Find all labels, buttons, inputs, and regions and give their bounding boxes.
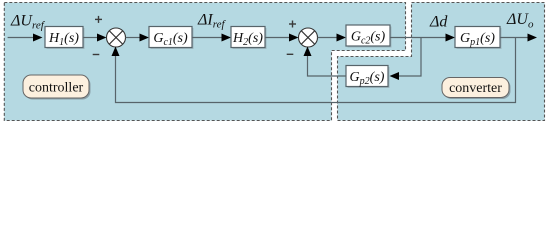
wire: Gp1 to output <box>500 37 529 39</box>
wire: junction 1 to Gc1 <box>126 37 141 39</box>
plus sign junction 2 <box>289 21 296 28</box>
block Gc2 <box>348 27 392 48</box>
summing junction U1 <box>107 28 126 47</box>
wire: Gp2 output back to junction 2 <box>308 56 347 76</box>
wire: junction 2 to Gc2 <box>318 37 338 39</box>
block Gp2 <box>348 67 390 88</box>
minus sign junction 1 <box>93 54 100 56</box>
svg-text:H1(s): H1(s) <box>48 31 79 48</box>
wire: Δd node drop to Gp2 input <box>399 38 421 77</box>
svg-text:controller: controller <box>29 81 84 96</box>
svg-text:H2(s): H2(s) <box>232 31 263 48</box>
summing junction U2 <box>299 28 318 47</box>
controller region (blue, dashed border) <box>4 3 405 121</box>
controller label <box>25 77 91 100</box>
svg-text:converter: converter <box>449 81 502 96</box>
minus sign junction 2 <box>287 53 294 55</box>
svg-text:Δd: Δd <box>429 14 448 31</box>
wire: input to H1 <box>8 37 34 39</box>
block Gp1 <box>457 28 502 49</box>
wire: output feedback to junction 1 <box>116 38 516 103</box>
block H1 <box>47 28 85 49</box>
plus sign junction 1 <box>95 16 102 23</box>
wire: Gc1 to H2 <box>192 37 223 39</box>
block H2 <box>233 28 267 49</box>
block Gc1 <box>151 28 194 49</box>
wire: Gc2 to Gp1 (node Δd) <box>390 37 446 39</box>
converter label <box>444 79 511 99</box>
wire: H1 to summing junction 1 <box>83 37 98 39</box>
converter region (blue, dashed border) <box>338 3 545 121</box>
wire: H2 to summing junction 2 <box>265 37 290 39</box>
